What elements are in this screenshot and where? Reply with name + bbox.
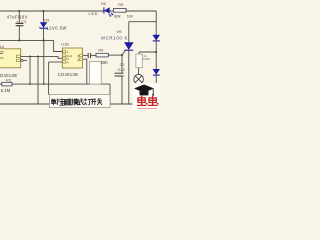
svg-text:82k: 82k (114, 14, 120, 19)
svg-text:CD4013B: CD4013B (58, 72, 78, 77)
svg-text:LED: LED (89, 11, 99, 16)
svg-text:CD4013B: CD4013B (0, 73, 17, 78)
svg-text:VS: VS (116, 29, 122, 34)
svg-text:R3: R3 (6, 78, 11, 82)
svg-text:FR05: FR05 (143, 57, 150, 61)
svg-text:12V0.5W: 12V0.5W (47, 25, 67, 30)
svg-text:0.22: 0.22 (118, 68, 125, 72)
svg-text:R5: R5 (118, 2, 123, 7)
svg-text:U1A: U1A (0, 44, 4, 49)
svg-text:U1B: U1B (61, 42, 69, 47)
svg-text:C3: C3 (21, 20, 26, 24)
svg-text:5.1M: 5.1M (1, 88, 11, 93)
svg-text:R4: R4 (98, 48, 103, 52)
svg-text:20K: 20K (101, 60, 109, 65)
svg-text:D6: D6 (101, 2, 106, 6)
svg-text:D5: D5 (44, 17, 49, 22)
svg-text:MCR100-6: MCR100-6 (101, 35, 127, 40)
svg-text:A: A (67, 60, 69, 64)
svg-text:C2: C2 (120, 63, 125, 67)
svg-text:1W: 1W (127, 14, 133, 19)
